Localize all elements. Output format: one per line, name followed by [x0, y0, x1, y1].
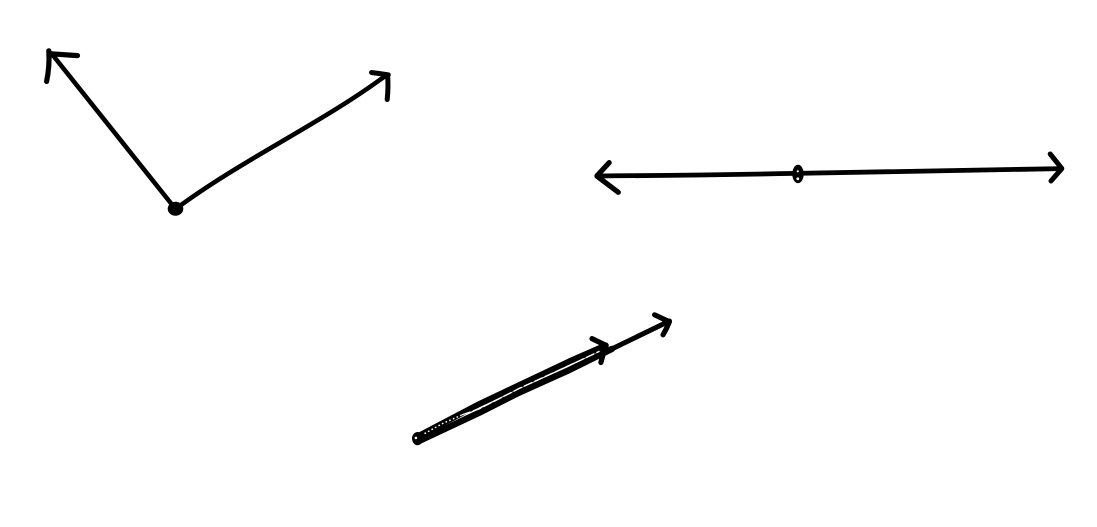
left arrowhead lower barb — [597, 176, 618, 192]
double ray: lower (longer) stroke — [418, 349, 613, 442]
white notch in endpoint blob — [415, 437, 418, 440]
right arrowhead lower barb — [1051, 169, 1062, 181]
horizontal line with two arrows — [597, 169, 1061, 176]
arrowhead (up-right ray): vertical barb — [385, 75, 391, 100]
left arrowhead upper barb — [597, 163, 609, 176]
angle figure: ray arm up-right — [176, 77, 385, 210]
midpoint ring on line — [792, 165, 803, 183]
double ray: lower stroke continuation past junction — [610, 321, 670, 350]
arrowhead (up-left ray): vertical barb — [47, 51, 49, 82]
vertex dot of angle — [168, 202, 184, 216]
far arrowhead vertical barb — [663, 322, 669, 335]
angle figure: ray arm up-left — [52, 54, 176, 210]
double ray figure: endpoint blob — [412, 432, 423, 445]
right arrowhead upper barb — [1050, 154, 1062, 168]
arrowhead (up-left ray): horizontal barb — [51, 54, 78, 56]
middle arrowhead barb — [592, 339, 605, 345]
white sliver between double-ray strokes (dashed) — [462, 351, 600, 415]
white sliver between double-ray strokes (dotted near start) — [425, 415, 463, 434]
middle arrowhead vertical barb — [601, 346, 605, 363]
far arrowhead barb — [655, 315, 669, 322]
double ray: upper (shorter) stroke — [415, 345, 606, 437]
arrowhead (up-right ray): horizontal barb — [372, 73, 389, 75]
